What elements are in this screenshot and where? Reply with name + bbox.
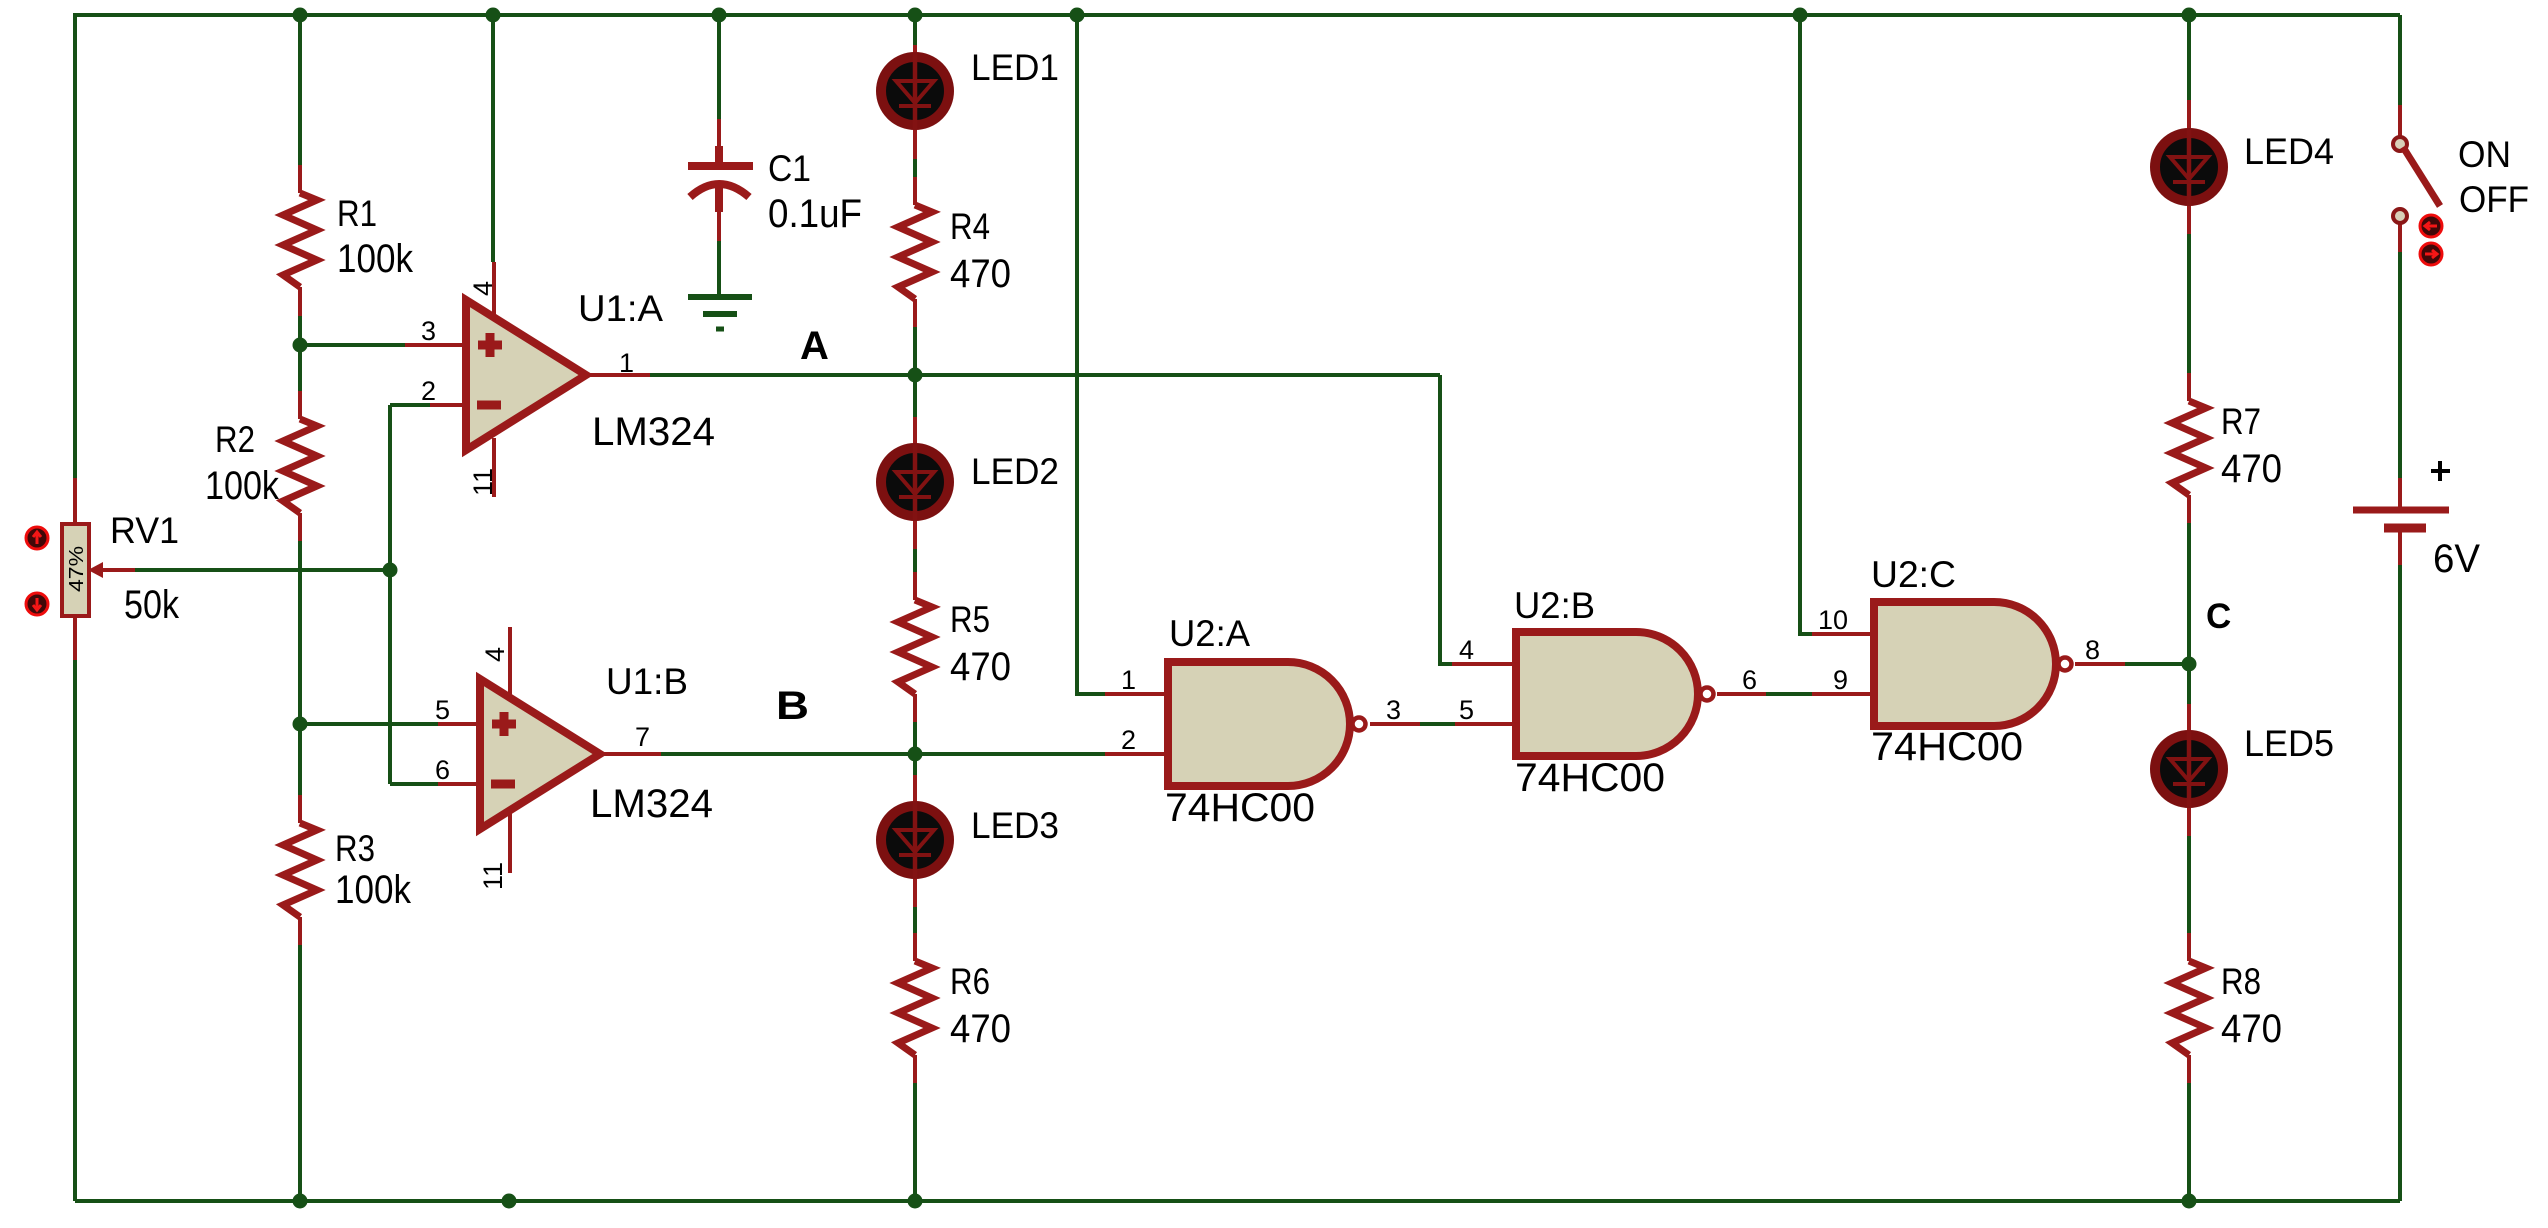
svg-text:RV1: RV1: [110, 510, 179, 551]
svg-text:6V: 6V: [2433, 537, 2480, 581]
svg-text:ON: ON: [2458, 134, 2511, 175]
svg-text:U2:A: U2:A: [1169, 613, 1250, 654]
svg-text:U2:C: U2:C: [1871, 554, 1956, 595]
svg-text:11: 11: [478, 862, 508, 890]
svg-text:8: 8: [2085, 635, 2100, 665]
svg-text:R2: R2: [215, 419, 255, 460]
svg-text:LED1: LED1: [971, 47, 1059, 88]
svg-text:74HC00: 74HC00: [1515, 756, 1665, 800]
svg-text:R3: R3: [335, 828, 375, 869]
svg-text:OFF: OFF: [2459, 179, 2529, 220]
svg-text:100k: 100k: [337, 237, 414, 281]
svg-text:3: 3: [1386, 695, 1401, 725]
svg-text:LED3: LED3: [971, 805, 1059, 846]
svg-text:LM324: LM324: [590, 782, 713, 826]
svg-text:2: 2: [421, 376, 436, 406]
svg-text:9: 9: [1833, 665, 1848, 695]
svg-text:470: 470: [2221, 447, 2282, 491]
svg-text:R8: R8: [2221, 961, 2261, 1002]
svg-text:470: 470: [2221, 1007, 2282, 1051]
svg-text:47%: 47%: [66, 546, 88, 592]
svg-text:74HC00: 74HC00: [1871, 725, 2023, 769]
svg-text:74HC00: 74HC00: [1165, 786, 1315, 830]
svg-text:5: 5: [435, 695, 450, 725]
svg-text:LED5: LED5: [2244, 723, 2334, 764]
svg-text:470: 470: [950, 252, 1011, 296]
svg-text:R5: R5: [950, 599, 990, 640]
svg-text:50k: 50k: [124, 583, 180, 627]
svg-text:R6: R6: [950, 961, 990, 1002]
svg-text:R7: R7: [2221, 401, 2261, 442]
svg-text:U1:A: U1:A: [578, 288, 663, 329]
svg-text:1: 1: [619, 348, 634, 378]
svg-text:100k: 100k: [335, 868, 412, 912]
svg-text:4: 4: [1459, 635, 1474, 665]
svg-text:U1:B: U1:B: [606, 661, 688, 702]
svg-text:C: C: [2206, 597, 2231, 636]
svg-text:1: 1: [1121, 665, 1136, 695]
svg-text:4: 4: [468, 281, 498, 296]
svg-text:11: 11: [468, 468, 498, 496]
svg-text:B: B: [776, 684, 809, 728]
svg-text:6: 6: [435, 755, 450, 785]
svg-text:4: 4: [480, 647, 510, 662]
svg-text:470: 470: [950, 1007, 1011, 1051]
svg-text:U2:B: U2:B: [1514, 585, 1595, 626]
svg-text:LED4: LED4: [2244, 131, 2334, 172]
svg-text:100k: 100k: [205, 464, 280, 508]
svg-text:3: 3: [421, 316, 436, 346]
svg-text:2: 2: [1121, 725, 1136, 755]
svg-text:C1: C1: [768, 148, 811, 189]
svg-text:0.1uF: 0.1uF: [768, 192, 862, 236]
svg-text:LM324: LM324: [592, 410, 715, 454]
svg-text:R4: R4: [950, 206, 990, 247]
svg-text:6: 6: [1742, 665, 1757, 695]
svg-text:7: 7: [635, 722, 650, 752]
svg-text:5: 5: [1459, 695, 1474, 725]
svg-text:A: A: [800, 324, 829, 368]
svg-text:R1: R1: [337, 193, 377, 234]
svg-text:10: 10: [1818, 605, 1848, 635]
svg-text:LED2: LED2: [971, 451, 1059, 492]
svg-text:470: 470: [950, 645, 1011, 689]
